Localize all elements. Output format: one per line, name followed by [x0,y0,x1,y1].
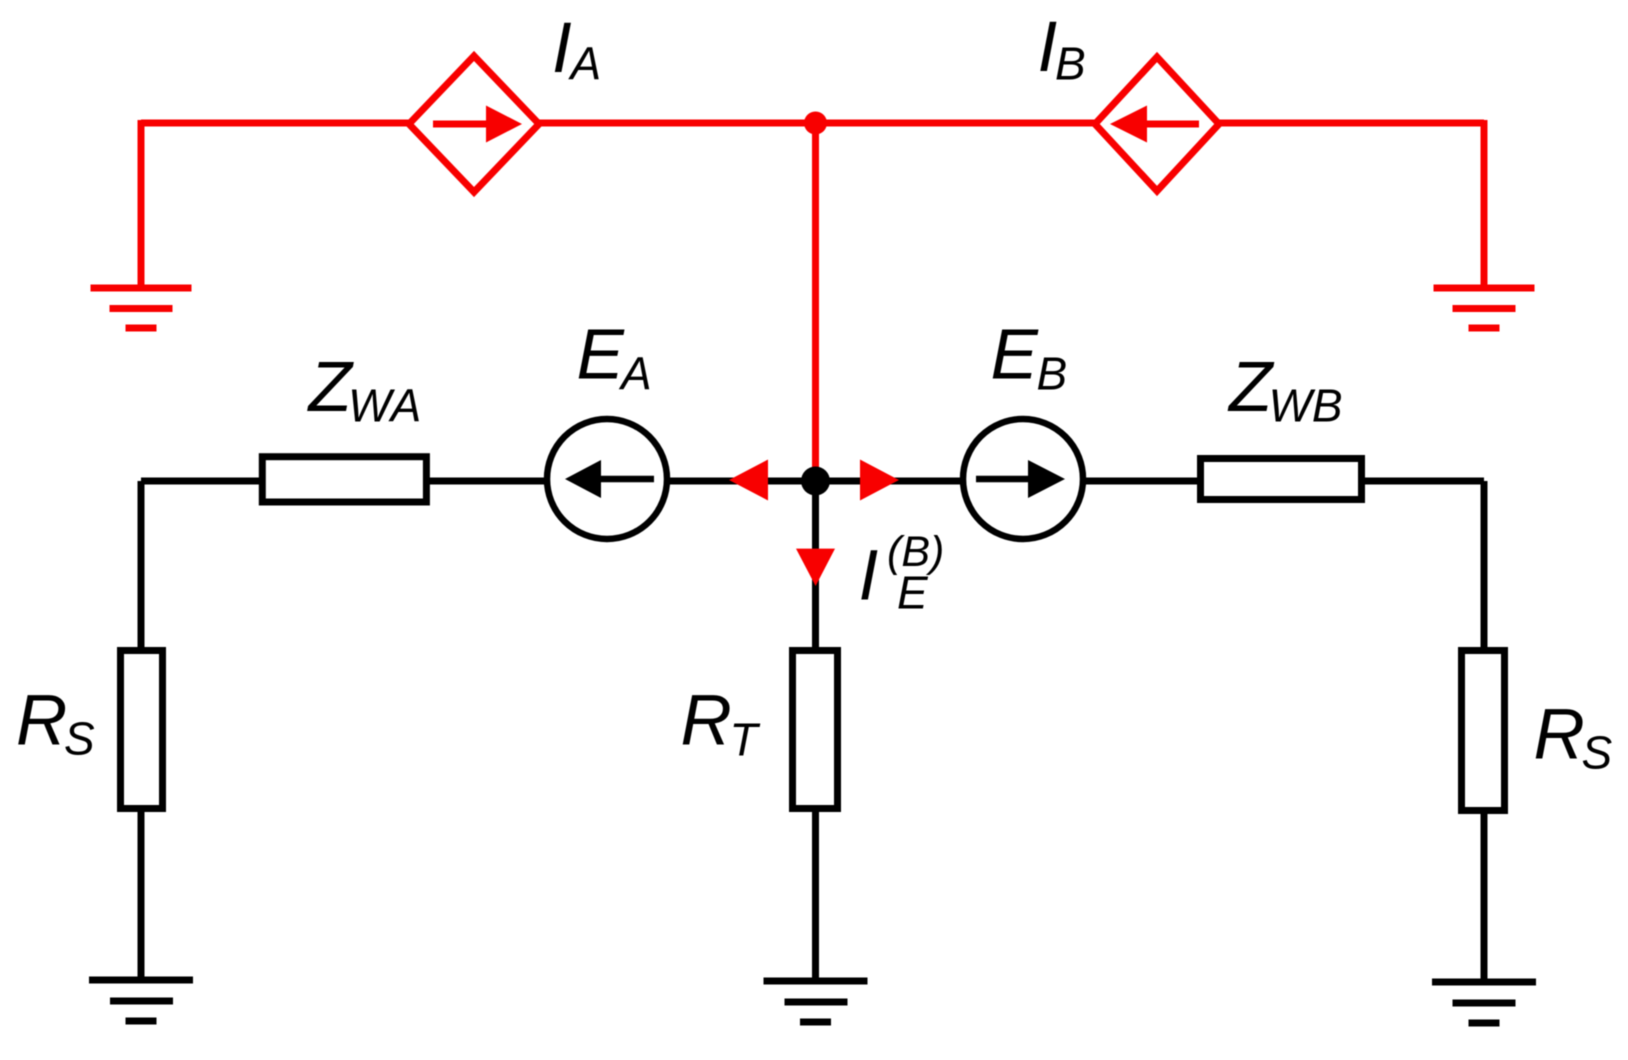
wire [1481,481,1488,981]
resistor ZWB [1201,459,1362,500]
svg-text:E: E [991,316,1040,395]
svg-text:B: B [1037,348,1068,400]
svg-text:S: S [1582,727,1613,779]
label E_B [991,316,1068,400]
svg-text:I: I [859,537,879,616]
current arrow into node left [729,460,768,501]
svg-text:R: R [681,682,732,761]
svg-text:I: I [552,9,572,88]
svg-text:E: E [897,567,929,619]
wire [141,120,1484,127]
svg-text:R: R [1534,696,1585,775]
label ZWB [1227,348,1343,432]
ground [1434,288,1535,328]
label E_A [577,316,652,400]
wire [812,481,819,981]
label RS right [1534,696,1613,779]
resistor ZWA [262,457,426,502]
label I_A [552,9,601,90]
voltage source E_B [963,419,1083,539]
svg-text:WB: WB [1269,380,1343,432]
label I_E (B) [859,528,945,619]
node A [804,112,827,135]
label RS left [16,682,95,765]
label I_B [1038,8,1086,90]
svg-text:B: B [1055,38,1086,90]
ground [1432,982,1536,1023]
svg-text:A: A [618,348,652,400]
wire [1481,120,1488,288]
resistor RS left [121,651,163,809]
wire [812,123,819,481]
current source I_B [1095,57,1219,191]
resistor RT [793,651,838,809]
svg-text:R: R [16,682,67,761]
label ZWA [307,348,422,432]
svg-text:T: T [730,714,761,766]
svg-text:E: E [577,316,626,395]
voltage source E_A [547,419,667,539]
wire [138,120,145,288]
svg-text:WA: WA [348,380,421,432]
current source I_A [409,56,539,192]
node B [801,467,830,496]
ground [764,981,868,1022]
ground [91,288,192,328]
resistor RS right [1462,651,1505,811]
ground [89,980,193,1021]
svg-text:A: A [568,38,602,90]
current arrow into node right [860,460,899,501]
label RT [681,682,761,766]
wire [138,481,145,981]
svg-text:S: S [64,713,95,765]
wire [141,478,1484,485]
current arrow I_E down [796,549,835,586]
